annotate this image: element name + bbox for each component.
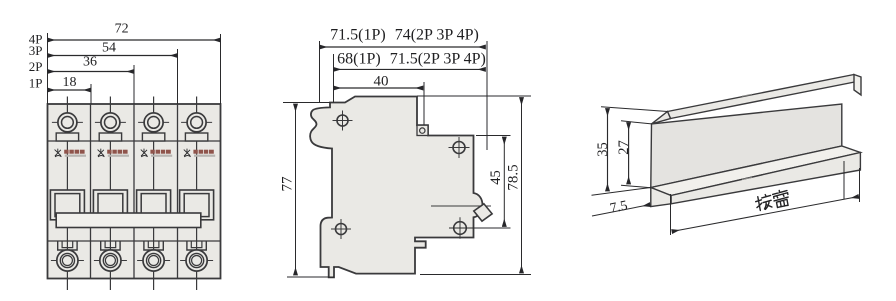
din rail bottom flange front face <box>671 153 860 204</box>
dimension 78.5 <box>506 98 522 274</box>
screw hole front bottom <box>449 217 471 239</box>
ext line handle tip <box>486 41 488 150</box>
screw hole front top <box>449 137 470 158</box>
din rail top flange front face <box>668 75 858 119</box>
extension line 36/2P <box>133 65 135 104</box>
dimension 71.5(1P) 74(2P 3P 4P) <box>320 27 486 48</box>
pole 1 handle window outer <box>50 190 84 220</box>
pole 1 top terminal screw <box>52 113 83 132</box>
pole 2 brand text <box>107 150 129 157</box>
ext line front top edge <box>476 135 511 137</box>
extension line left edge <box>47 33 49 104</box>
side view body outline <box>310 97 482 278</box>
pole 3 top terminal clamp <box>142 133 164 141</box>
svg-text:77: 77 <box>280 176 296 192</box>
svg-text:45: 45 <box>488 170 504 185</box>
pole 1 brand logo <box>55 149 62 157</box>
pole 3 brand logo <box>141 149 148 157</box>
svg-text:72: 72 <box>115 22 129 37</box>
pole 1 top terminal clamp <box>56 133 78 141</box>
pole 2 top terminal screw <box>95 113 126 132</box>
svg-text:40: 40 <box>374 74 389 90</box>
din rail bottom flange left lip end <box>651 188 671 207</box>
label 4P <box>29 32 43 47</box>
svg-text:36: 36 <box>83 55 97 70</box>
dimension 7.5 line <box>592 199 650 217</box>
svg-text:35: 35 <box>595 142 611 157</box>
pole 4 brand logo <box>184 149 191 157</box>
din rail top flange right end cap <box>854 75 861 96</box>
dimension 36 (2P width) <box>48 55 135 72</box>
pole 4 top terminal clamp <box>185 133 207 141</box>
pole 4 center line <box>196 97 198 291</box>
ext line rear face (71.5/74) <box>319 41 321 103</box>
ext line body bottom right <box>420 274 531 276</box>
dimension 40 <box>334 74 424 90</box>
din rail top flange left chamfer <box>652 112 671 124</box>
pole 4 handle window inner <box>184 194 209 217</box>
ext line rail length right <box>859 168 861 202</box>
dimension as-needed (length) <box>672 197 859 232</box>
pole 2 bottom terminal screw <box>94 250 127 271</box>
dimension 18 (1P width) <box>48 75 92 90</box>
svg-text:54: 54 <box>102 41 116 56</box>
bottom terminal band separator <box>48 240 221 242</box>
ext line 77 top <box>283 102 330 104</box>
dimension 68(1P) 71.5(2P 3P 4P) <box>334 51 486 70</box>
svg-text:27: 27 <box>616 140 632 155</box>
svg-text:68(1P)71.5(2P 3P 4P): 68(1P)71.5(2P 3P 4P) <box>337 51 486 68</box>
breaker front view body <box>48 104 221 279</box>
ext line body top right <box>417 95 531 97</box>
dimension 72 (4P width) <box>48 22 221 41</box>
pole 1 brand text <box>64 150 86 157</box>
pole 1 handle window inner <box>55 194 80 217</box>
ext line rail top <box>601 107 668 112</box>
label 按需 (length as needed) <box>754 189 789 211</box>
extension line 54/3P <box>177 49 179 104</box>
pole 4 top terminal screw <box>181 113 212 132</box>
pole divider 1 <box>90 104 92 279</box>
top terminal band separator <box>48 140 221 142</box>
pole 2 handle window outer <box>93 190 127 220</box>
extension line 18/1P <box>90 84 92 104</box>
toggle handle pivot line <box>431 205 491 207</box>
pole 4 handle window outer <box>180 190 214 220</box>
svg-text:18: 18 <box>63 75 77 90</box>
ext line rail bottom <box>592 188 651 196</box>
pole 2 top terminal clamp <box>99 133 121 141</box>
pole 2 center line <box>109 97 111 291</box>
toggle tie bar <box>56 213 201 228</box>
din rail web face <box>651 104 842 188</box>
pole 4 brand text <box>193 150 215 157</box>
pole 3 brand text <box>150 150 172 157</box>
svg-text:71.5(1P)74(2P 3P 4P): 71.5(1P)74(2P 3P 4P) <box>330 27 479 44</box>
pole divider 2 <box>133 104 135 279</box>
svg-text:78.5: 78.5 <box>506 164 522 190</box>
pole 3 bottom terminal clamp <box>144 241 163 250</box>
pole 2 bottom terminal clamp <box>101 241 120 250</box>
ext line 77 bottom <box>287 276 334 278</box>
svg-text:3P: 3P <box>29 43 43 58</box>
dimension 27 <box>616 123 632 185</box>
ext line web top <box>621 121 652 124</box>
extension line 72/4P <box>220 34 222 104</box>
ext line 40 right <box>423 82 425 125</box>
dimension 54 (3P width) <box>48 41 178 56</box>
dimension 45 <box>488 137 504 227</box>
ext line rail length left <box>670 194 672 235</box>
screw hole rear top <box>333 111 353 131</box>
pole 3 bottom terminal screw <box>137 250 170 271</box>
pole 1 center line <box>66 97 68 291</box>
pole 4 bottom terminal screw <box>180 250 213 271</box>
pole 4 bottom terminal clamp <box>187 241 206 250</box>
screw hole rear bottom <box>331 219 351 239</box>
dimension 77 <box>280 104 296 275</box>
label 2P <box>29 59 43 74</box>
pole 3 center line <box>153 97 155 291</box>
pole 1 bottom terminal screw <box>51 250 84 271</box>
dimension 35 <box>595 109 611 192</box>
ext line rail web right <box>843 161 845 199</box>
pole 2 handle window inner <box>98 194 123 217</box>
toggle handle lever <box>474 204 492 221</box>
ext line web bottom <box>621 185 651 188</box>
pole 2 brand logo <box>98 149 105 157</box>
din rail flange slot mark 1 <box>742 178 752 180</box>
pole divider 3 <box>177 104 179 279</box>
pole 1 bottom terminal clamp <box>58 241 77 250</box>
din rail strip slot mark <box>742 94 752 96</box>
label 3P <box>29 43 43 58</box>
svg-text:7.5: 7.5 <box>609 199 629 217</box>
din rail bottom flange top face <box>651 146 861 196</box>
svg-text:1P: 1P <box>29 76 43 91</box>
pole 3 handle window inner <box>141 194 166 217</box>
pole 3 top terminal screw <box>138 113 169 132</box>
label 1P <box>29 76 43 91</box>
ext line rail seat (68/71.5/40) <box>333 54 335 103</box>
svg-text:2P: 2P <box>29 59 43 74</box>
ext line bottom hole center <box>449 227 511 229</box>
hinge pin box <box>417 125 428 135</box>
pole 3 handle window outer <box>137 190 171 220</box>
